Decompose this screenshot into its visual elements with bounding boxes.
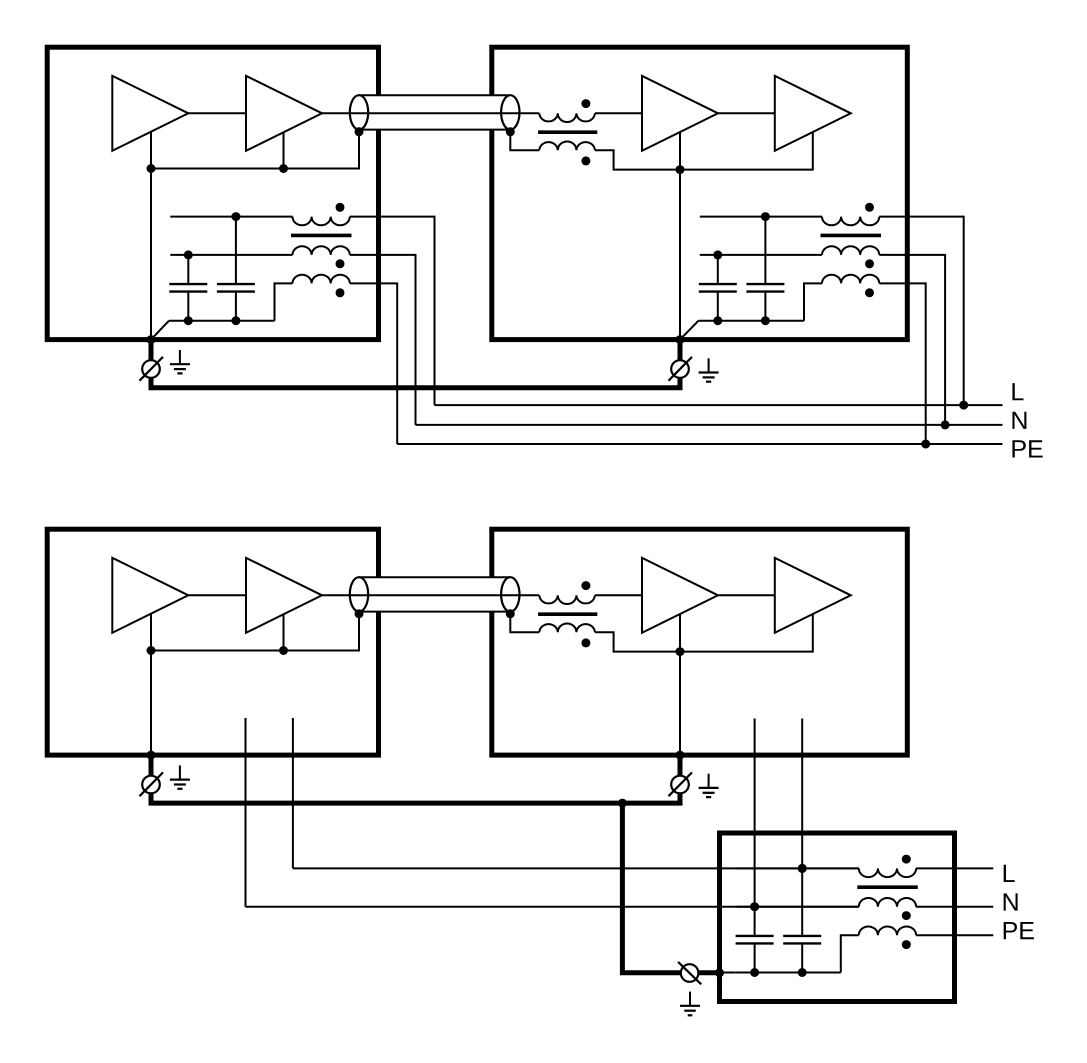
polarity dot L3 winding 1 [902,855,911,864]
ground G3 (unit 3): feedthrough terminal [149,758,154,777]
wire: T1 to A3 input [595,112,642,114]
wire: filter FL3 line-2 (N) stub [737,906,859,908]
wire: FL3 to L terminal [916,867,993,869]
polarity dot L1 winding 3 [336,288,345,297]
node: A2 on return bus [279,164,288,173]
transformer T1 core bar [538,130,597,134]
node: A1 on return bus [147,164,156,173]
ground G5 earth symbol [689,992,691,1006]
wire: mains PE rail (top) [397,443,1002,445]
polarity dot T2 secondary [581,638,590,647]
op-amp A6 (driver stage 2) [246,558,322,633]
op-amp A3 (receiver stage 1) [642,76,718,151]
wire: signal return bus to cable screen (bottom) [151,614,359,651]
wire: T2 to A7 input [595,594,642,596]
wire: heavy earth bond to filter [622,803,681,973]
ground G2 (unit 2): earth symbol [708,358,710,372]
wire: filter FL2 ground rail [699,320,805,322]
wire: filter FL2 PE riser [804,283,822,320]
ground G4 (unit 4): earth symbol [708,774,710,788]
polarity dot T2 primary [581,581,590,590]
coax cable W2 right end ellipse [501,577,519,611]
wire: FL1 line-1 to mains L [350,217,435,406]
polarity dot L3 winding 3 [902,940,911,949]
capacitor C1b [217,217,255,321]
polarity dot L2 winding 1 [865,203,874,212]
wire: FL3 to PE terminal [916,934,993,936]
op-amp A7 (receiver stage 1) [642,558,718,633]
node: C1a to rail junction [184,316,193,325]
op-amp A8 (receiver stage 2) [775,558,851,633]
device box: source unit 1 (top-left) [47,47,378,339]
node: L junction (top) [959,401,968,410]
wire: heavy earth bond between units (bottom) [151,792,680,803]
inductor L1 winding 3 [293,275,350,284]
op-amp A2 (driver stage 2) [246,76,322,151]
node: chassis stud unit 4 [676,751,685,760]
coax cable W1 centre conductor [322,112,539,114]
wire: receiver return bus (bottom) [595,614,813,652]
ground G4 (unit 4): feedthrough terminal [678,758,683,777]
wire: FL2 rail to chassis (diagonal) [680,321,699,340]
capacitor C1a [169,255,207,321]
node: A5 on return bus [147,646,156,655]
wire: filter FL1 line-2 (N) stub [170,254,292,256]
wire: filter FL1 PE riser [275,283,293,320]
capacitor C2a [699,255,737,321]
node: chassis stud unit 2 [676,335,685,344]
label: mains PE (top) [1012,440,1025,457]
wire: FL1 rail to chassis (diagonal) [151,321,169,340]
wire: filter FL1 line-1 (L) stub [170,216,292,218]
coax cable W1 left end ellipse [350,95,368,129]
wire: FL2 line-3 to mains PE [879,283,925,444]
wire: FL1 line-3 to mains PE [350,283,397,444]
wire: signal return bus to cable screen [151,132,359,169]
inductor L2 winding 3 [822,275,879,284]
node: N junction (bottom) [750,902,759,911]
node: C1a to line-2 junction [184,250,193,259]
inductor L3 winding 2 [859,898,916,907]
node: A6 on return bus [279,646,288,655]
wire: receiver return bus [595,132,813,170]
node: A3 on return bus [676,165,685,174]
node: L junction (bottom) [798,864,807,873]
wire: A7 output to A8 input [718,594,775,596]
wire: unit 3 N lead down [245,718,247,907]
device box: receiver unit 1 (top-right) [492,47,908,339]
wire: mains L rail (top) [435,404,1003,406]
polarity dot T1 secondary [581,156,590,165]
wire: heavy earth bond between units (top) [151,377,680,388]
node: earth bond tee [618,799,627,808]
label: mains PE (bottom) [1004,922,1017,939]
node: C2a to rail junction [713,316,722,325]
coax cable W1 right end ellipse [501,95,519,129]
polarity dot L3 winding 2 [902,911,911,920]
wire: FL2 line-2 to mains N [879,255,945,425]
inductor L2 winding 2 [822,246,879,255]
label: mains L (top) [1012,383,1023,400]
inductor L3 winding 3 [859,927,916,936]
wire: mains N rail (top) [416,424,1003,426]
inductor L2 core bar [821,234,882,238]
wire: FL3 rail to box wall [722,972,735,974]
polarity dot L1 winding 1 [336,203,345,212]
ground G2 (unit 2): feedthrough terminal [678,342,683,361]
wire: cable screen to T2 secondary [510,614,539,632]
node: C3b to line-1 junction [798,864,807,873]
inductor L3 core bar [857,885,918,889]
node: chassis stud unit 1 [147,335,156,344]
wire: A5 ground drop to chassis [150,614,152,755]
ground G5 (filter) feedthrough terminal [681,964,699,982]
polarity dot L1 winding 2 [336,259,345,268]
wire: filter FL3 line-1 (L) stub [737,867,859,869]
wire: A3 ground drop to chassis [679,132,681,340]
node: C1b to rail junction [231,316,240,325]
wire: mains L feed to filter [293,867,859,869]
label: mains N (top) [1012,412,1026,429]
wire: A2 ground drop [283,132,285,169]
wire: filter FL2 line-1 (L) stub [700,216,822,218]
wire: unit 4 L lead down to filter [801,719,803,869]
node: C2b to rail junction [761,316,770,325]
node: filter chassis stud [715,968,724,977]
wire: A3 output to A4 input [718,112,775,114]
wire: heavy bond circle to filter box wall [698,970,722,975]
polarity dot T1 primary [581,99,590,108]
node: chassis stud unit 3 [147,751,156,760]
label: mains L (bottom) [1004,865,1015,882]
wire: cable screen to T1 secondary [510,132,539,150]
node: C1b to line-1 junction [231,212,240,221]
coax cable W1 screen (cylinder body) [359,95,510,129]
wire: filter FL3 ground rail [735,972,841,974]
wire: A5 output to A6 input [188,594,246,596]
polarity dot L2 winding 2 [865,259,874,268]
node: C2a to line-2 junction [713,250,722,259]
device box: source unit 2 (bottom-left) [47,529,378,755]
ground G1 (unit 1): feedthrough terminal [149,342,154,361]
wire: FL3 to N terminal [916,906,993,908]
node: cable W1 screen bond right [506,127,515,136]
node: cable W1 screen bond left [355,127,364,136]
transformer T2 primary winding [539,595,595,604]
node: C3a to rail junction [750,968,759,977]
capacitor C2b [746,217,784,321]
wire: filter FL3 PE riser [841,935,859,972]
wire: filter FL1 ground rail [169,320,275,322]
inductor L1 winding 1 [293,217,350,226]
wire: A7 ground drop to chassis [679,614,681,755]
inductor L1 winding 2 [293,246,350,255]
device box: external mains filter [720,833,955,1002]
node: A7 on return bus [676,647,685,656]
node: PE junction (top) [921,440,930,449]
wire: FL1 line-2 to mains N [350,255,416,425]
coax cable W2 screen (cylinder body) [359,577,510,611]
ground G3 (unit 3): earth symbol [179,765,181,779]
label: mains N (bottom) [1004,893,1018,910]
inductor L3 winding 1 [859,868,916,877]
device box: receiver unit 2 (bottom-right) [492,529,908,755]
wire: A1 output to A2 input [188,112,246,114]
op-amp A1 (driver stage 1) [112,76,188,151]
node: C3a to line-2 junction [750,902,759,911]
ground G1 (unit 1): earth symbol [179,350,181,364]
wire: unit 4 N lead down to filter [754,719,756,907]
wire: mains N feed to filter [246,906,859,908]
inductor L1 core bar [291,234,352,238]
wire: filter FL2 line-2 (N) stub [700,254,822,256]
polarity dot L2 winding 3 [865,288,874,297]
coax cable W2 centre conductor [322,594,539,596]
node: C3b to rail junction [798,968,807,977]
node: cable W2 screen bond right [506,609,515,618]
node: N junction (top) [941,420,950,429]
transformer T2 secondary winding [539,623,595,632]
inductor L2 winding 1 [822,217,879,226]
node: cable W2 screen bond left [355,609,364,618]
op-amp A5 (driver stage 1) [112,558,188,633]
wire: A1 ground drop to chassis [150,132,152,340]
op-amp A4 (receiver stage 2) [775,76,851,151]
wire: A6 ground drop [283,614,285,651]
capacitor C3b [783,868,821,972]
wire: unit 3 L lead down [292,718,294,868]
transformer T1 primary winding [539,113,595,122]
node: C2b to line-1 junction [761,212,770,221]
transformer T1 secondary winding [539,141,595,150]
wire: FL2 line-1 to mains L [879,217,963,406]
transformer T2 core bar [538,612,597,616]
coax cable W2 left end ellipse [350,577,368,611]
capacitor C3a [736,907,774,973]
